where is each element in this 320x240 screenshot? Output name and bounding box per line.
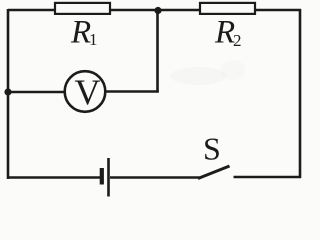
svg-text:2: 2 (233, 31, 242, 50)
node junction left (4, 88, 11, 95)
svg-text:R: R (214, 15, 235, 51)
battery negative short plate (100, 168, 104, 185)
svg-text:1: 1 (89, 30, 98, 49)
voltmeter U1 circle (65, 71, 106, 112)
resistor R2 (200, 3, 255, 14)
wire left side (7, 9, 10, 179)
switch S blade (198, 166, 230, 179)
svg-text:R: R (70, 15, 91, 51)
wire bottom-left to battery (8, 176, 100, 179)
wire R2 to top-right corner (255, 9, 301, 12)
node junction top (154, 7, 161, 14)
wire riser up to junction (156, 10, 159, 93)
svg-text:S: S (203, 131, 221, 167)
wire right side (299, 9, 302, 178)
wire voltmeter to riser (106, 90, 159, 93)
battery positive long plate (107, 158, 110, 197)
wire top-left segment (8, 9, 56, 12)
wire junction to R2 (158, 9, 201, 12)
svg-text:V: V (75, 72, 101, 112)
wire switch to bottom-right corner (234, 176, 302, 179)
resistor R1 (55, 3, 110, 14)
wire left to voltmeter (8, 91, 65, 94)
faint page show-through smudge (170, 67, 226, 85)
wire R1 to junction (110, 9, 158, 12)
wire battery to switch (110, 176, 200, 179)
